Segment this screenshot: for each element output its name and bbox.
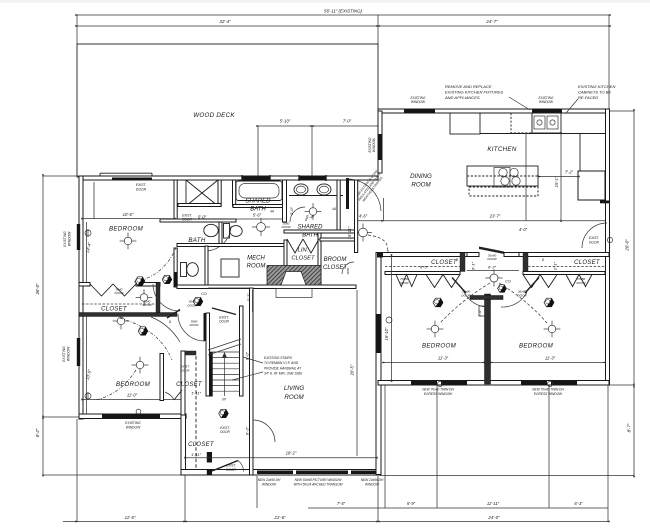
svg-text:24′-0″: 24′-0″ xyxy=(487,515,500,520)
svg-text:WOOD DECK: WOOD DECK xyxy=(193,112,235,119)
exterior wall entry west xyxy=(181,414,186,475)
cooktop burners on island xyxy=(499,168,507,176)
exterior wall top of left section xyxy=(79,176,378,180)
svg-text:CLOSET: CLOSET xyxy=(431,260,458,266)
bath1/mech divider wall xyxy=(177,244,284,247)
svg-text:7′-2″: 7′-2″ xyxy=(565,170,574,175)
wall light bedroom1 left xyxy=(85,230,91,236)
egress window right bedroom xyxy=(521,381,547,385)
landing rect below hatch xyxy=(276,289,312,298)
bedroom1 east wall xyxy=(174,180,177,222)
svg-text:BEDROOM: BEDROOM xyxy=(422,343,457,350)
dimension line left 36'-0" xyxy=(42,176,44,475)
dimension line bottom 7'-5" 5'-9" 11'-11 6'-3 xyxy=(308,507,608,509)
WC west wall below door xyxy=(174,248,177,287)
shared bath 2 vanity counter xyxy=(289,195,343,197)
switch arcs dashed bedroom section xyxy=(440,283,490,323)
window center circle bedroom2 xyxy=(136,409,141,414)
exterior wall east of living / west of bedrooms xyxy=(376,253,381,475)
ceiling light bedroom1 xyxy=(120,233,137,250)
smoke detector right bedroom xyxy=(544,298,554,307)
dim 26'-5 rotated xyxy=(356,290,358,456)
door shared bath2 xyxy=(290,207,305,222)
dim 6'-3 hall xyxy=(467,270,519,272)
existing window lower-left wall xyxy=(77,338,80,366)
kitchen counter right run xyxy=(561,133,580,135)
smoke detector bedroom2 xyxy=(138,327,148,335)
svg-text:26′-0″: 26′-0″ xyxy=(625,239,630,252)
light hall left xyxy=(113,313,130,330)
dim extension lines top xyxy=(76,15,78,44)
stair enclosure walls xyxy=(206,313,210,396)
svg-text:BATH: BATH xyxy=(188,237,205,244)
svg-text:16′-10″: 16′-10″ xyxy=(384,327,389,340)
svg-text:4A: 4A xyxy=(270,210,274,214)
exterior wall left side xyxy=(79,176,83,419)
svg-text:EXISTINGWINDOW: EXISTINGWINDOW xyxy=(125,421,141,430)
smoke detector above closet1 xyxy=(162,275,172,283)
exterior wall dining west upper xyxy=(378,111,382,173)
existing window dining west wall xyxy=(379,134,382,160)
smoke detector left bedroom xyxy=(433,298,443,307)
exterior wall bedroom2 south xyxy=(79,414,186,419)
svg-text:36′-0″: 36′-0″ xyxy=(35,283,40,295)
svg-text:EXIST.DOOR: EXIST.DOOR xyxy=(226,464,236,472)
svg-text:2′-1″: 2′-1″ xyxy=(553,261,558,271)
dimension line 24'-7" xyxy=(378,25,609,27)
stair dark strip xyxy=(210,352,213,397)
svg-text:8′-7″: 8′-7″ xyxy=(627,423,632,432)
hall light xyxy=(136,289,153,306)
CO detector hall xyxy=(498,285,507,293)
hall ceiling light xyxy=(485,269,502,286)
svg-text:24′-7″: 24′-7″ xyxy=(485,19,498,24)
right exterior door arc top-right xyxy=(582,223,607,248)
vanity sink left xyxy=(294,184,308,195)
closet1 shelf dashed xyxy=(82,303,156,305)
stair treads xyxy=(210,351,240,353)
stair up arrow xyxy=(224,356,226,396)
svg-text:CLOSET: CLOSET xyxy=(101,307,128,313)
new sliding window right in top wall xyxy=(299,177,326,180)
door to stair hall xyxy=(204,313,207,341)
hatched stair access xyxy=(267,266,321,286)
closet left partition walls dark xyxy=(460,253,465,272)
kitchen refrigerator box right xyxy=(578,171,605,200)
dim 4'-6 xyxy=(356,220,383,222)
svg-text:4′-0″: 4′-0″ xyxy=(519,227,528,232)
mech room walls xyxy=(205,246,208,287)
bath1 sink oval xyxy=(204,224,218,236)
svg-text:15′-11″: 15′-11″ xyxy=(347,226,352,239)
right closet bottom wall xyxy=(523,272,605,275)
kitchen sink unit double bowl xyxy=(532,113,561,133)
shower stall with X xyxy=(186,180,218,206)
svg-text:$: $ xyxy=(168,320,171,324)
svg-text:11′-3″: 11′-3″ xyxy=(438,356,449,361)
smoke detector near closet1 left xyxy=(135,277,145,285)
svg-text:5′-6″: 5′-6″ xyxy=(253,213,262,218)
svg-text:2080: 2080 xyxy=(346,267,350,275)
lin closet double doors xyxy=(287,239,303,253)
bifold doors right closet xyxy=(523,275,557,288)
svg-text:1′-0″: 1′-0″ xyxy=(478,309,482,317)
svg-text:4′-6″: 4′-6″ xyxy=(359,214,368,219)
shower walls xyxy=(218,180,221,206)
svg-text:$: $ xyxy=(541,258,544,262)
closet1 south wall dark xyxy=(79,313,177,317)
svg-text:6′-2″: 6′-2″ xyxy=(35,428,40,437)
exterior door from deck to dining - leaf and arc xyxy=(346,178,349,209)
bedroom section top wall middle segment with door opening xyxy=(467,253,479,257)
svg-text:BEDROOM: BEDROOM xyxy=(519,343,554,350)
wall poche dark segment on east living wall xyxy=(377,314,381,353)
svg-text:6′-5″: 6′-5″ xyxy=(420,264,429,269)
new sliding window left in top wall xyxy=(242,177,270,180)
svg-text:EXIST.DOOR: EXIST.DOOR xyxy=(589,236,600,245)
svg-text:4A: 4A xyxy=(332,207,336,211)
dimension 5'-10 / 7'-0 over shared baths xyxy=(258,125,378,127)
svg-text:1′-11″: 1′-11″ xyxy=(191,452,201,457)
svg-text:EXISTINGWINDOW: EXISTINGWINDOW xyxy=(411,96,426,104)
svg-text:5′-0″: 5′-0″ xyxy=(198,215,207,220)
svg-text:EXIST.DOOR: EXIST.DOOR xyxy=(180,365,190,373)
right bedroom door leaf and arc xyxy=(525,278,539,294)
svg-text:5′-4″: 5′-4″ xyxy=(306,215,315,220)
closet rod dashed left xyxy=(385,266,460,268)
ceiling light left bedroom xyxy=(427,321,444,338)
door bedroom1 arc xyxy=(206,226,231,251)
svg-text:3′-0″: 3′-0″ xyxy=(289,206,294,215)
svg-text:DININGROOM: DININGROOM xyxy=(410,173,432,189)
lin closet walls xyxy=(318,233,321,286)
counter corner dark stub xyxy=(600,201,609,204)
windows south wall living room xyxy=(257,471,293,475)
vestibule ceiling light xyxy=(354,224,372,242)
svg-text:5′-9″: 5′-9″ xyxy=(407,501,416,506)
svg-text:KITCHEN: KITCHEN xyxy=(487,146,516,153)
rotated small dims near stair wall xyxy=(252,290,254,312)
svg-text:11′-11″: 11′-11″ xyxy=(487,501,500,506)
hall top wall / closet1 walls xyxy=(79,283,90,287)
wall light bedroom2 xyxy=(85,393,91,399)
bath2 toilet xyxy=(224,224,230,239)
dimension right 8'-7" xyxy=(633,384,635,387)
existing window kitchen top-right xyxy=(532,110,562,113)
svg-text:21′-6″: 21′-6″ xyxy=(273,515,286,520)
dim 14'-4 rotated xyxy=(86,222,88,282)
ceiling light right bedroom xyxy=(544,321,561,338)
svg-text:EXIST.DOOR: EXIST.DOOR xyxy=(182,214,192,222)
dimension line 32'-4" xyxy=(77,25,378,27)
CO detector hall left xyxy=(193,297,203,305)
dimension line bottom 11'-5 21'-6 24'-0 xyxy=(63,521,608,523)
dim 11'-0 bedroom2 xyxy=(83,399,181,401)
svg-text:EXIST.DOOR: EXIST.DOOR xyxy=(219,316,229,324)
shared bath2 east wall xyxy=(337,180,340,230)
svg-text:BEDROOM: BEDROOM xyxy=(109,226,144,233)
svg-text:7′-5″: 7′-5″ xyxy=(337,501,346,506)
left closet bottom wall xyxy=(385,272,460,275)
kitchen island xyxy=(467,166,538,186)
broom closet door xyxy=(342,262,354,274)
svg-text:DOOR: DOOR xyxy=(487,257,497,261)
dim 10'-6 bedroom1 xyxy=(83,218,174,220)
svg-text:15′-1″: 15′-1″ xyxy=(554,176,559,187)
exterior wall south living room xyxy=(181,470,380,476)
svg-text:NEW 70x40 TWIN DHEGRESS WINDOW: NEW 70x40 TWIN DHEGRESS WINDOW xyxy=(532,388,564,396)
dimension line 56'-11" (EXISTING) top xyxy=(77,14,609,16)
svg-text:6′-3″: 6′-3″ xyxy=(488,264,497,269)
svg-text:26′-5″: 26′-5″ xyxy=(350,364,355,376)
switch arc bedroom2 dashed xyxy=(120,318,172,360)
svg-text:6′-3″: 6′-3″ xyxy=(574,501,583,506)
mech room equipment xyxy=(221,259,239,277)
svg-text:DOOR: DOOR xyxy=(190,323,200,327)
door to bedroom2 leaf and arc xyxy=(167,310,180,319)
svg-text:$: $ xyxy=(455,258,458,262)
shared bath 2 light xyxy=(305,203,322,220)
dim 10'-5 rotated xyxy=(86,316,88,414)
svg-text:6′-1″: 6′-1″ xyxy=(471,261,476,270)
svg-text:DOOR: DOOR xyxy=(115,291,125,295)
svg-text:11′-5″: 11′-5″ xyxy=(125,515,136,520)
svg-text:NEW 50x68 PICTURE WINDOWWITH 5: NEW 50x68 PICTURE WINDOWWITH 50x24 ARCHE… xyxy=(294,478,343,486)
dim 15'-1 rotated xyxy=(560,134,562,220)
svg-text:3′-2″: 3′-2″ xyxy=(246,293,251,302)
svg-text:CLOSET: CLOSET xyxy=(176,382,203,388)
exist door top-left with leaf xyxy=(99,173,101,176)
wall light symbols bedroom section xyxy=(437,381,442,386)
living room north wall xyxy=(177,285,356,289)
closet1 east wall xyxy=(156,283,160,316)
dimension line right 26'-0" xyxy=(633,111,635,476)
svg-text:10′-6″: 10′-6″ xyxy=(123,212,134,217)
svg-text:23′-7″: 23′-7″ xyxy=(489,214,501,219)
switch arc to bedroom hall xyxy=(368,235,387,251)
closet rod dashed right xyxy=(528,266,605,268)
svg-text:CLOSET: CLOSET xyxy=(188,442,215,448)
stair door leaf xyxy=(212,308,236,315)
svg-text:DOOR: DOOR xyxy=(400,281,410,285)
svg-text:32′-4″: 32′-4″ xyxy=(219,19,231,24)
svg-text:EXISTINGWINDOW: EXISTINGWINDOW xyxy=(62,346,71,362)
living west wall xyxy=(250,288,254,475)
bath divider wall vertical xyxy=(219,222,222,244)
svg-text:11′-0″: 11′-0″ xyxy=(127,393,138,398)
entry exist door leaf and arc xyxy=(207,452,212,463)
dashed wall line entry xyxy=(195,356,197,470)
exterior wall right side xyxy=(606,109,610,385)
svg-text:8′-0″: 8′-0″ xyxy=(245,351,250,360)
shared bath2 south wall xyxy=(284,230,356,233)
svg-text:11′-3″: 11′-3″ xyxy=(545,356,556,361)
svg-text:EXIST.DOOR: EXIST.DOOR xyxy=(220,426,230,434)
existing window kitchen top-left xyxy=(404,110,435,113)
dim 23'-7 dining xyxy=(383,220,605,222)
closet mid doors V xyxy=(174,390,182,400)
svg-text:EXISTINGWINDOW: EXISTINGWINDOW xyxy=(368,137,376,152)
svg-text:EXISTINGWINDOW: EXISTINGWINDOW xyxy=(63,231,72,247)
exterior wall top kitchen section xyxy=(378,109,609,113)
hall door arc top xyxy=(153,284,180,311)
svg-text:56′-11″ (EXISTING): 56′-11″ (EXISTING) xyxy=(324,9,362,14)
svg-text:DOOR: DOOR xyxy=(282,225,292,229)
kitchen dashed dishwasher xyxy=(511,113,532,133)
dim 18'-10 rotated left of section xyxy=(391,256,393,380)
wood deck outline xyxy=(77,44,378,177)
dim 11'-3 right bedroom xyxy=(492,362,604,364)
angled door leaf in middle opening xyxy=(479,247,504,255)
leader from note to stairs xyxy=(243,357,263,363)
svg-text:DOOR: DOOR xyxy=(461,293,471,297)
existing window upper-left wall xyxy=(77,224,80,250)
bath1 toilet lower-left xyxy=(181,263,187,277)
svg-text:8′-3″: 8′-3″ xyxy=(245,426,250,435)
exterior wall bedroom section south xyxy=(378,381,609,386)
stair break line xyxy=(208,339,241,350)
living north opening walls xyxy=(208,287,250,289)
svg-text:EXIST.DOOR: EXIST.DOOR xyxy=(136,183,147,192)
closet1 bifold doors xyxy=(90,284,136,296)
svg-text:7′-0″: 7′-0″ xyxy=(343,119,352,124)
egress window left bedroom xyxy=(411,381,437,385)
smoke detector living xyxy=(219,409,229,417)
svg-text:$: $ xyxy=(304,218,307,222)
party wall between bedrooms xyxy=(485,294,491,384)
tub room east wall xyxy=(283,180,287,222)
svg-text:CO: CO xyxy=(201,292,207,296)
vanity sink right xyxy=(317,184,331,195)
svg-text:EXISTINGWINDOW: EXISTINGWINDOW xyxy=(539,96,554,104)
bifold doors left closet xyxy=(396,275,417,287)
bedroom section top wall xyxy=(378,253,467,257)
existing window bedroom2 south xyxy=(102,415,160,419)
dim 18'-2 xyxy=(186,457,376,459)
svg-text:DOOR: DOOR xyxy=(577,281,587,285)
dim 5'-6 xyxy=(236,218,282,220)
svg-text:18′-2″: 18′-2″ xyxy=(286,451,297,456)
svg-text:CO: CO xyxy=(505,280,511,284)
broom closet north wall xyxy=(320,238,356,241)
svg-text:5′-10″: 5′-10″ xyxy=(280,119,291,124)
left bedroom door leaf and arc xyxy=(452,278,466,294)
svg-text:NEW 70x40 TWIN DHEGRESS WINDOW: NEW 70x40 TWIN DHEGRESS WINDOW xyxy=(422,388,454,396)
tub room south wall xyxy=(233,205,285,208)
closet mid walls xyxy=(160,354,164,401)
svg-text:DOOR: DOOR xyxy=(517,293,527,297)
ceiling light bedroom2 xyxy=(132,357,149,374)
dim 7'-2 xyxy=(540,176,578,178)
svg-text:CLOSET: CLOSET xyxy=(574,260,601,266)
wall below exist door 5'-0 row xyxy=(160,219,236,222)
wall x356 vestibule xyxy=(355,180,358,253)
switch arc bedroom1 dashed xyxy=(134,248,176,282)
kitchen cabinet box near top wall xyxy=(450,113,480,134)
bath2 light xyxy=(252,218,270,236)
hall bottom wall stubs xyxy=(470,296,503,300)
dim 11'-3 left bedroom xyxy=(384,362,483,364)
tub shared bath 1 xyxy=(233,180,236,206)
